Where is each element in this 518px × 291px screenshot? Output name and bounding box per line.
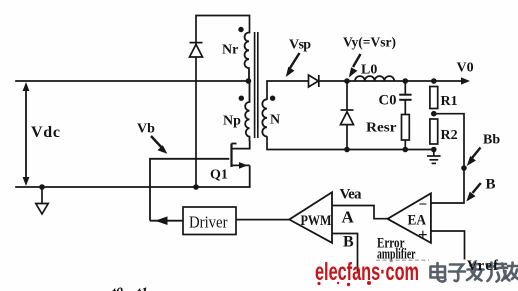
inductor L0 xyxy=(355,76,394,81)
wire driver output xyxy=(150,220,183,222)
arrow Vsp xyxy=(286,53,300,77)
svg-text:t0: t0 xyxy=(112,286,123,291)
ground (primary, open triangle) xyxy=(36,187,48,214)
winding N (secondary) xyxy=(262,99,267,136)
node freewheel bottom xyxy=(344,147,350,153)
node primary ground tap xyxy=(39,184,45,190)
wire EA inverting input xyxy=(431,114,464,203)
phase dot Np xyxy=(239,96,244,101)
transistor Q1 (MOSFET switch) xyxy=(232,141,250,187)
underline amplifier xyxy=(376,259,429,261)
svg-text:Vy(=Vsr): Vy(=Vsr) xyxy=(343,36,396,51)
driver output arrowhead xyxy=(155,216,168,225)
svg-text:Np: Np xyxy=(223,114,241,129)
winding Np (primary) xyxy=(245,81,249,141)
driver box xyxy=(183,207,236,235)
svg-text:N: N xyxy=(270,113,280,128)
phase dot N xyxy=(270,96,275,101)
phase dot Nr xyxy=(238,27,243,32)
svg-text:Driver: Driver xyxy=(189,213,228,232)
op-amp EA error amplifier xyxy=(388,193,431,243)
arrow B xyxy=(466,183,481,202)
svg-text:Vdc: Vdc xyxy=(31,124,60,141)
node C0 bottom xyxy=(403,147,409,153)
svg-text:Vb: Vb xyxy=(137,122,155,137)
Q1 source arrowhead xyxy=(239,162,248,169)
svg-text:A: A xyxy=(342,208,355,227)
svg-text:B: B xyxy=(486,177,496,193)
svg-text:Q1: Q1 xyxy=(210,168,228,183)
watermark drips xyxy=(317,281,371,286)
arrow Vb xyxy=(151,136,167,154)
op-amp PWM comparator xyxy=(289,192,332,243)
svg-text:L0: L0 xyxy=(361,63,377,78)
svg-text:+: + xyxy=(418,225,428,244)
arrow V0 output xyxy=(461,77,470,84)
svg-text:−: − xyxy=(419,197,428,213)
svg-text:R2: R2 xyxy=(441,128,458,143)
wire secondary top after diode xyxy=(320,80,463,82)
node R2 bottom xyxy=(431,147,437,153)
resistor R1 xyxy=(430,87,438,109)
wire B input xyxy=(332,234,358,272)
wire EA noninverting input to Vref xyxy=(431,231,465,260)
svg-text:Vsp: Vsp xyxy=(289,38,311,53)
watermark CJK 烧 xyxy=(487,263,510,282)
node R1 top xyxy=(431,78,437,84)
node divider xyxy=(431,111,437,117)
watermark CJK 子 xyxy=(449,265,465,282)
resistor Resr xyxy=(402,115,410,141)
watermark CJK 发 xyxy=(467,263,484,281)
node reset-bottom junction xyxy=(193,184,199,190)
svg-text:Resr: Resr xyxy=(366,121,397,136)
wire pwm to driver xyxy=(236,219,290,221)
diode D1 (reset clamp) xyxy=(190,43,203,57)
node Nr/Np rail junction xyxy=(246,78,252,84)
node Vy xyxy=(344,78,350,84)
arrow Vy xyxy=(349,54,361,78)
wire secondary top xyxy=(267,81,308,99)
arrow Bb xyxy=(467,148,481,167)
svg-text:Vea: Vea xyxy=(340,187,363,203)
svg-text:Vref: Vref xyxy=(467,258,498,274)
svg-text:elecfans·com: elecfans·com xyxy=(315,258,419,286)
wire top rail Vdc+ xyxy=(16,80,249,82)
svg-text:V0: V0 xyxy=(457,61,474,76)
ground (secondary earth) xyxy=(427,150,441,164)
transformer core xyxy=(255,32,258,138)
diode D2 (secondary series) xyxy=(309,75,319,87)
wire secondary bottom xyxy=(267,137,434,150)
Vdc dimension arrow xyxy=(23,82,30,186)
capacitor C0 xyxy=(399,81,411,115)
svg-text:R1: R1 xyxy=(441,94,458,109)
wire gate xyxy=(150,159,229,221)
watermark CJK 友 xyxy=(505,263,518,280)
wire freewheel branch xyxy=(346,81,348,150)
node Bb sense xyxy=(461,165,467,171)
resistor R2 xyxy=(430,119,438,144)
svg-text:B: B xyxy=(343,234,354,251)
winding Nr (reset) xyxy=(245,33,249,82)
svg-text:Bb: Bb xyxy=(483,133,500,148)
diode D3 (freewheel) xyxy=(341,110,354,125)
wire bottom rail Vdc- xyxy=(16,186,250,188)
watermark CJK 电 xyxy=(431,263,446,282)
svg-text:PWM: PWM xyxy=(301,213,332,229)
svg-text:Nr: Nr xyxy=(222,43,238,58)
node L0 output xyxy=(403,78,409,84)
wire reset top xyxy=(196,16,250,188)
wire A input xyxy=(332,206,390,219)
svg-text:C0: C0 xyxy=(379,93,397,109)
svg-text:t1: t1 xyxy=(137,286,148,291)
